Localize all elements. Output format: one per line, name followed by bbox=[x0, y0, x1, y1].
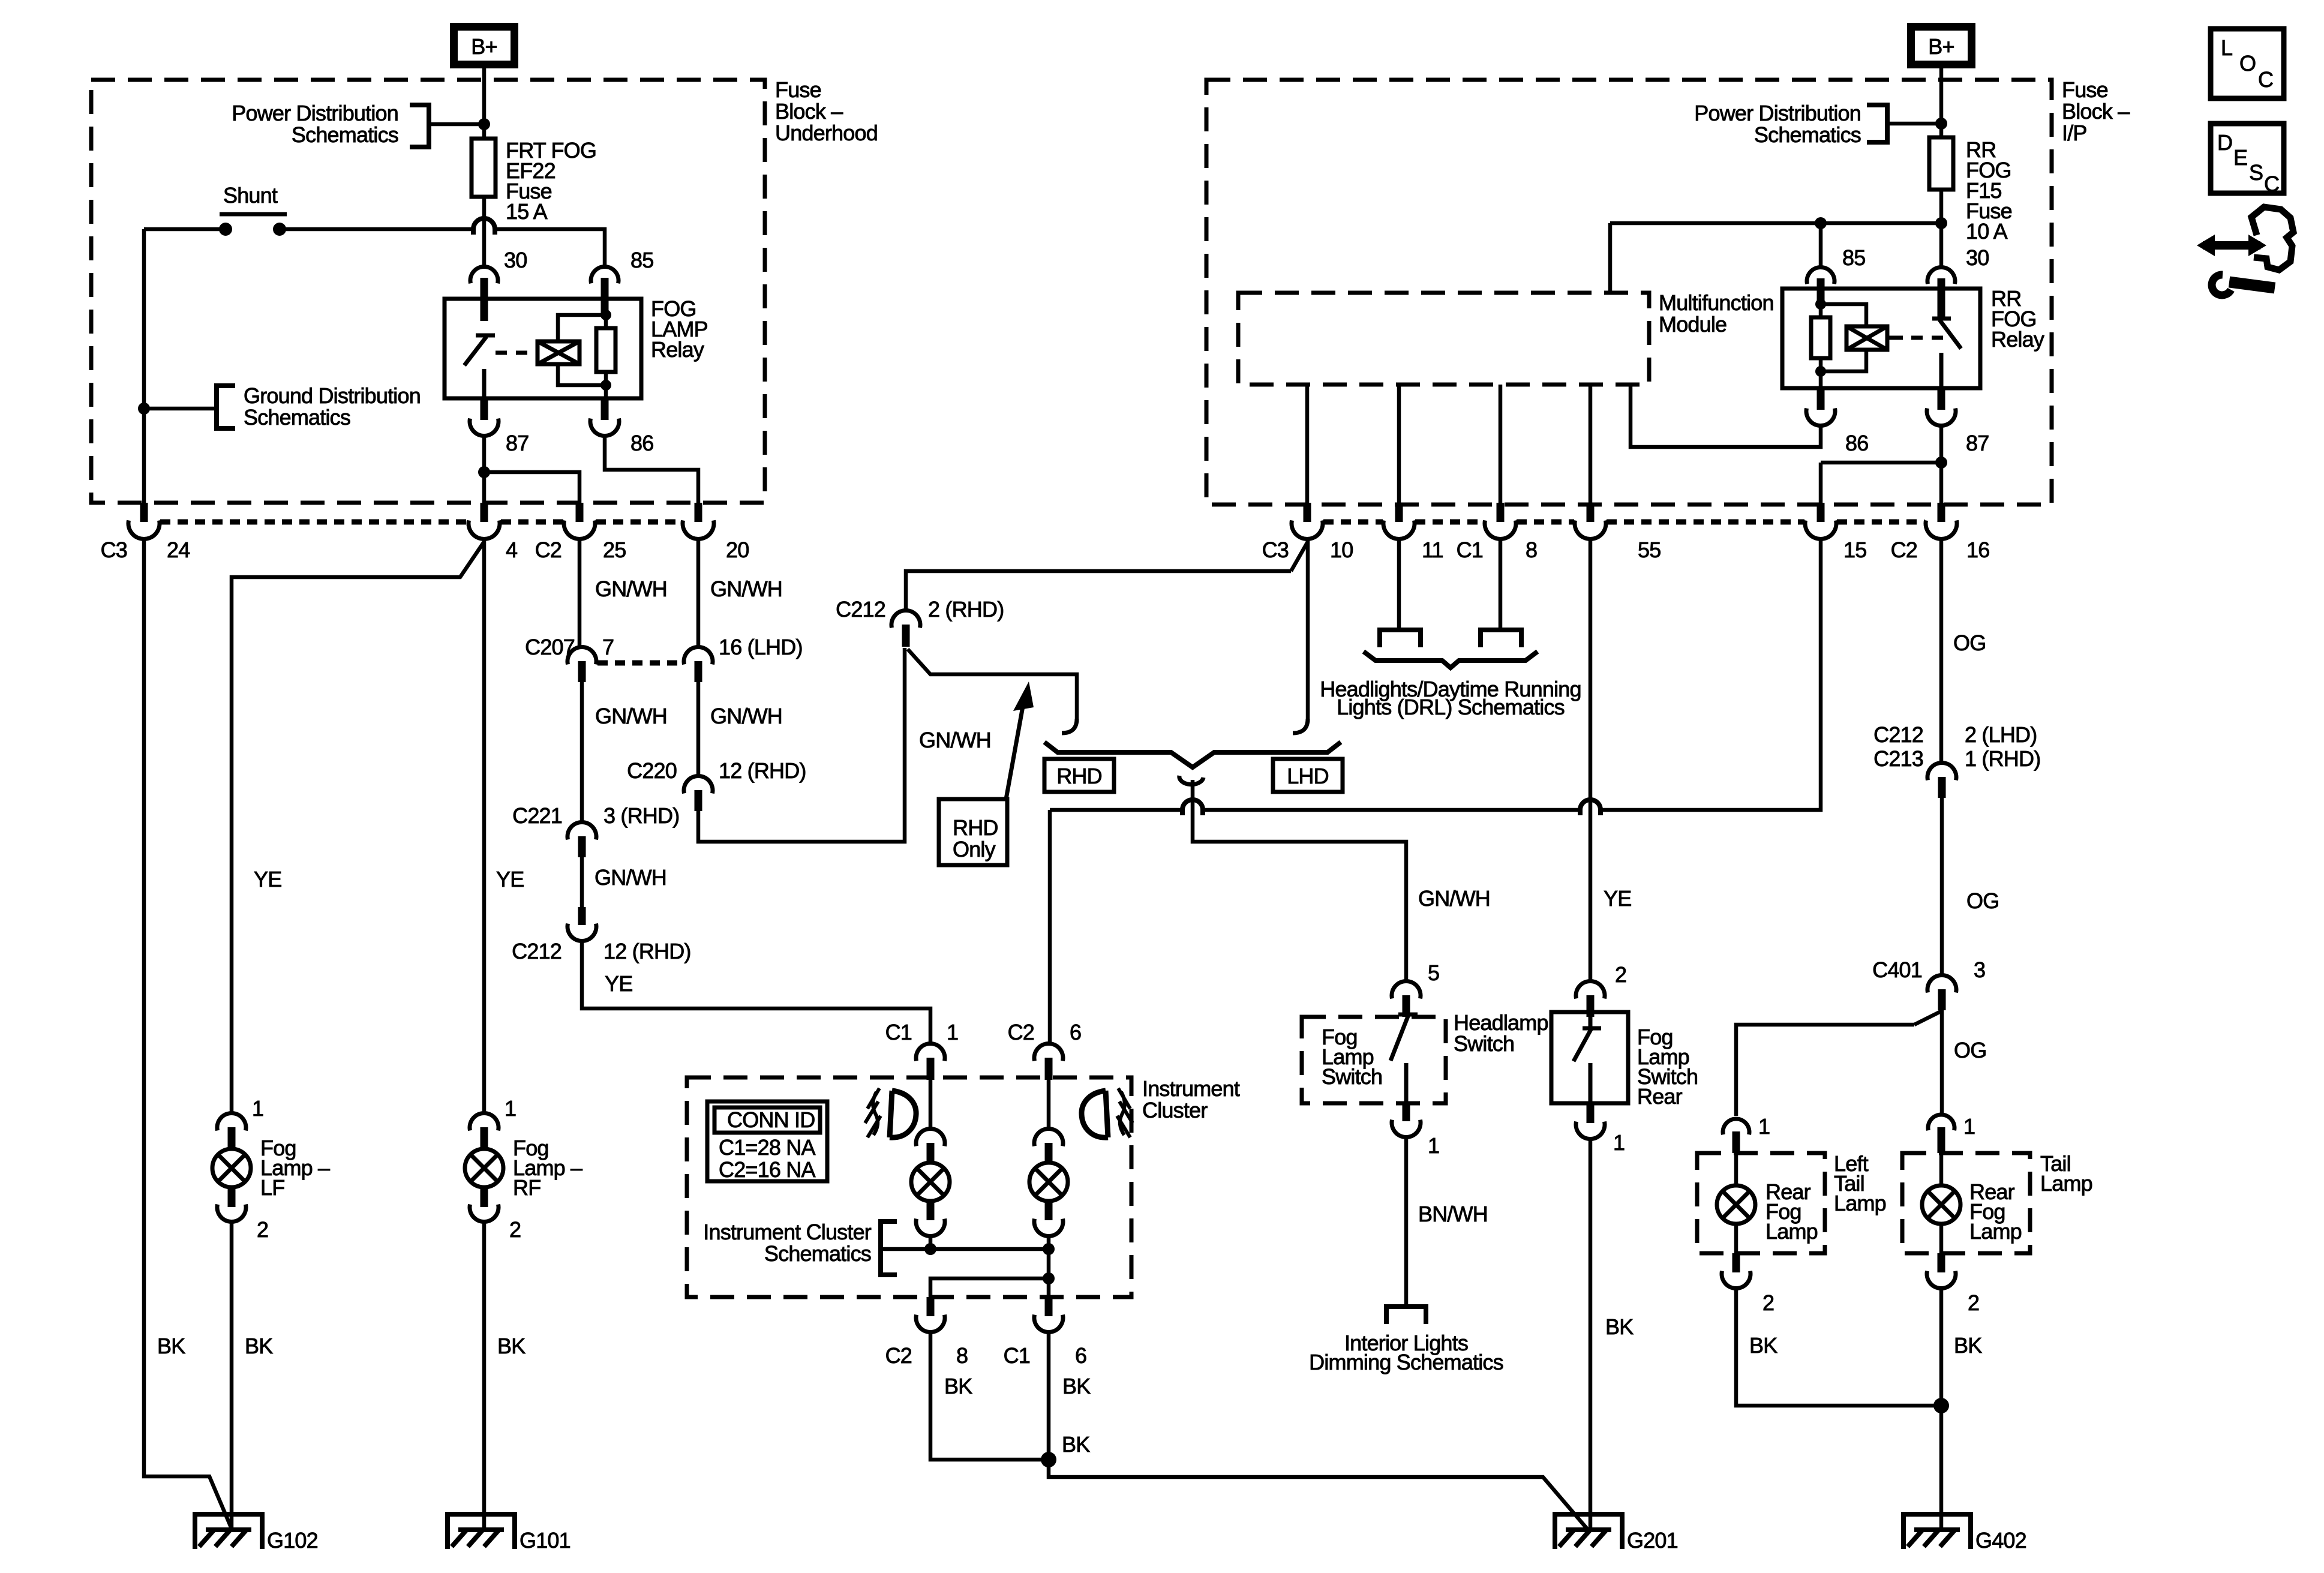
tail lamp dashed box bbox=[1902, 1153, 2030, 1253]
relay pin 85 terminal right bbox=[1807, 268, 1834, 284]
svg-text:8: 8 bbox=[956, 1343, 968, 1368]
box RHD bbox=[1044, 759, 1114, 792]
wire BK left rear fog to splice bbox=[1736, 1287, 1941, 1406]
svg-text:I/P: I/P bbox=[2062, 121, 2087, 145]
wire fuse output to module bbox=[1610, 221, 1941, 226]
svg-text:Lamp: Lamp bbox=[2040, 1171, 2092, 1196]
wire terminal 16 OG down bbox=[1939, 538, 1944, 764]
wire C1-6 BK down bbox=[1047, 1331, 1051, 1460]
shunt terminal dot right bbox=[273, 223, 286, 236]
connector C3 pin 24 bbox=[140, 503, 148, 522]
bulb Rear Fog Lamp left bbox=[1717, 1185, 1755, 1224]
wire 25 GN/WH to C207-7 bbox=[578, 538, 582, 649]
wire YE C212-12 to instrument cluster C1-1 bbox=[582, 939, 930, 1045]
wire BK to G201 bbox=[1589, 1137, 1593, 1531]
svg-text:RHD: RHD bbox=[1056, 764, 1102, 788]
relay resistor right bbox=[1811, 317, 1830, 358]
wire C207-16 GN/WH to C220 bbox=[696, 682, 701, 778]
svg-text:G102: G102 bbox=[267, 1528, 318, 1553]
svg-text:85: 85 bbox=[1842, 245, 1865, 270]
svg-text:15: 15 bbox=[1843, 538, 1866, 562]
connector C221 pin 3 RHD bbox=[568, 822, 596, 840]
svg-text:Instrument: Instrument bbox=[1142, 1076, 1240, 1101]
svg-text:BK: BK bbox=[1605, 1314, 1634, 1339]
connector pin 4 bbox=[481, 503, 488, 522]
svg-text:30: 30 bbox=[504, 248, 527, 272]
svg-text:Multifunction: Multifunction bbox=[1659, 290, 1774, 315]
svg-text:YE: YE bbox=[254, 867, 281, 891]
wire C3-10 branch to C212-2 bbox=[906, 571, 1291, 612]
svg-text:Fuse: Fuse bbox=[2062, 77, 2108, 102]
svg-text:BK: BK bbox=[1062, 1374, 1091, 1398]
svg-text:6: 6 bbox=[1075, 1343, 1086, 1368]
svg-text:Schematics: Schematics bbox=[244, 405, 350, 430]
box RHD Only bbox=[939, 799, 1007, 865]
svg-text:24: 24 bbox=[167, 538, 190, 562]
junction coil bottom right bbox=[1815, 366, 1826, 377]
svg-text:GN/WH: GN/WH bbox=[594, 865, 666, 890]
svg-text:BK: BK bbox=[944, 1374, 972, 1398]
relay actuator dashed link right bbox=[1887, 336, 1903, 340]
svg-text:86: 86 bbox=[1845, 431, 1868, 455]
wire B+ to fuse F15 bbox=[1939, 68, 1944, 137]
multifunction module dashed box bbox=[1238, 293, 1649, 385]
bulb fog indicator right bbox=[1029, 1163, 1068, 1201]
svg-text:5: 5 bbox=[1428, 960, 1439, 985]
bracket Instrument Cluster Schematics bbox=[881, 1221, 897, 1275]
shunt wire left segment bbox=[144, 227, 226, 232]
wire 15-line right segment up to terminal 15 bbox=[1601, 538, 1821, 810]
connector pin 11 bbox=[1395, 503, 1403, 522]
svg-text:12 (RHD): 12 (RHD) bbox=[719, 758, 806, 783]
junction BK rear fog splice bbox=[1933, 1398, 1949, 1413]
svg-text:YE: YE bbox=[605, 971, 632, 996]
wire BN/WH to interior lights dimming bbox=[1404, 1136, 1409, 1304]
relay FOG LAMP Relay box bbox=[445, 299, 641, 398]
svg-text:C3: C3 bbox=[1262, 538, 1289, 562]
svg-text:1: 1 bbox=[1428, 1133, 1439, 1158]
junction pin 87 split bbox=[478, 466, 490, 478]
svg-text:16: 16 bbox=[1966, 538, 1989, 562]
wire B+ to fuse EF22 bbox=[482, 68, 487, 139]
terminal cluster lamp left bottom bbox=[916, 1219, 945, 1236]
svg-text:Switch: Switch bbox=[1454, 1031, 1514, 1056]
svg-text:GN/WH: GN/WH bbox=[595, 577, 667, 601]
svg-text:1: 1 bbox=[1758, 1114, 1770, 1139]
connector C220 pin 12 RHD bbox=[684, 776, 713, 794]
svg-text:Block –: Block – bbox=[775, 99, 843, 124]
bracket interior lights dimming bbox=[1386, 1307, 1426, 1324]
left tail lamp dashed box bbox=[1697, 1153, 1825, 1253]
wire LF to G102 bbox=[230, 1220, 234, 1529]
svg-text:B+: B+ bbox=[471, 34, 497, 59]
connector C212 pin 12 RHD bbox=[578, 907, 586, 925]
brace RHD/LHD selector bbox=[1044, 742, 1341, 767]
junction to pin 85 right bbox=[1815, 217, 1827, 229]
wire C2-6 into cluster lamp bbox=[1047, 1080, 1051, 1130]
svg-text:G201: G201 bbox=[1627, 1528, 1678, 1553]
svg-text:OG: OG bbox=[1966, 888, 1999, 913]
svg-text:Cluster: Cluster bbox=[1142, 1098, 1208, 1122]
svg-text:1 (RHD): 1 (RHD) bbox=[1965, 746, 2040, 771]
wire pin 87 down bbox=[482, 434, 487, 503]
svg-text:B+: B+ bbox=[1928, 34, 1954, 59]
svg-text:1: 1 bbox=[252, 1096, 263, 1121]
wire hop over B+ feed bbox=[473, 218, 495, 235]
wire to power distribution bracket bbox=[429, 122, 484, 127]
terminal fog lamp switch rear pin 1 bbox=[1587, 1103, 1595, 1123]
ground G402 bbox=[1903, 1514, 1971, 1549]
svg-text:C207: C207 bbox=[525, 635, 575, 659]
connector pin 15 bbox=[1817, 503, 1825, 522]
bulb Fog Lamp LF bbox=[212, 1149, 251, 1187]
wire pin 86 to module right bbox=[1631, 385, 1821, 447]
junction node B+ feed bbox=[478, 118, 490, 130]
wire pin 87 down right bbox=[1939, 424, 1944, 503]
relay pin 86 terminal right bbox=[1817, 388, 1825, 410]
junction BK splice bbox=[1041, 1452, 1056, 1467]
svg-text:4: 4 bbox=[506, 538, 517, 562]
svg-text:Only: Only bbox=[953, 837, 996, 861]
svg-text:1: 1 bbox=[1963, 1114, 1975, 1139]
relay pin 87 terminal right bbox=[1938, 388, 1945, 410]
svg-text:Schematics: Schematics bbox=[292, 122, 398, 147]
connector stub DRL right bbox=[1481, 630, 1521, 647]
box LHD bbox=[1273, 759, 1343, 792]
icon fog lamp indicator right bbox=[1082, 1091, 1108, 1137]
svg-text:C1: C1 bbox=[1457, 538, 1483, 562]
svg-text:15 A: 15 A bbox=[506, 199, 548, 224]
wire to C2-8 exit bbox=[930, 1278, 1049, 1297]
icon box LOC bbox=[2211, 29, 2284, 98]
svg-text:Schematics: Schematics bbox=[1754, 122, 1861, 147]
svg-text:20: 20 bbox=[726, 538, 749, 562]
relay resistor bbox=[596, 328, 615, 372]
junction coil top right bbox=[1815, 299, 1826, 310]
wire module pin 55 output bbox=[1589, 385, 1593, 503]
svg-text:10 A: 10 A bbox=[1966, 219, 2008, 244]
wire brace output to headlamp switch pin 5 bbox=[1193, 780, 1406, 983]
arrow RHD Only callout bbox=[1006, 703, 1023, 799]
relay pin 30 terminal right bbox=[1927, 268, 1955, 284]
bracket Power Distribution Schematics right bbox=[1867, 105, 1887, 142]
svg-text:BK: BK bbox=[1062, 1432, 1090, 1457]
wire 15-line mid segment bbox=[1203, 808, 1580, 812]
svg-text:S: S bbox=[2249, 160, 2263, 185]
wire C2-8 BK down bbox=[930, 1331, 1049, 1460]
fuse F15 RR FOG 10A bbox=[1929, 137, 1953, 190]
svg-text:1: 1 bbox=[1613, 1130, 1625, 1155]
coil loop top right bbox=[1821, 304, 1866, 326]
svg-text:C: C bbox=[2258, 67, 2273, 92]
svg-text:BK: BK bbox=[245, 1334, 273, 1358]
svg-text:Shunt: Shunt bbox=[223, 183, 278, 208]
wire C3-24 down to G102 bbox=[144, 538, 232, 1529]
wire pin4 branch to fog lamp LF bbox=[232, 542, 484, 1115]
bulb fog indicator left bbox=[911, 1163, 950, 1201]
connector C207 pin 7 bbox=[568, 647, 596, 665]
icon box DESC bbox=[2211, 124, 2284, 193]
svg-text:BK: BK bbox=[157, 1334, 185, 1358]
svg-text:Relay: Relay bbox=[1991, 327, 2044, 352]
svg-text:2: 2 bbox=[1968, 1290, 1979, 1315]
terminal cluster lamp right bottom bbox=[1034, 1219, 1063, 1236]
connector pin 55 bbox=[1587, 503, 1595, 522]
icon fog lamp indicator left bbox=[890, 1091, 916, 1137]
wire module C3-10 output bbox=[1305, 385, 1310, 503]
wire branch to rear fog lamp left bbox=[1736, 1025, 1914, 1116]
svg-text:YE: YE bbox=[1604, 886, 1631, 911]
bracket Ground Distribution Schematics bbox=[217, 386, 235, 428]
svg-text:3: 3 bbox=[1974, 957, 1985, 982]
svg-text:GN/WH: GN/WH bbox=[919, 728, 991, 752]
wire shunt-left down to C3-24 bbox=[142, 229, 146, 503]
connector C2 pin 16 bbox=[1938, 503, 1945, 522]
connector C1 pin 8 bbox=[1497, 503, 1505, 522]
junction lamp right return bbox=[1043, 1243, 1055, 1255]
svg-text:GN/WH: GN/WH bbox=[1418, 886, 1490, 911]
bracket Power Distribution Schematics bbox=[410, 105, 429, 147]
connector C401 pin 3 bbox=[1927, 975, 1956, 993]
wire pin 55 YE down to fog lamp switch rear bbox=[1589, 539, 1593, 983]
junction coil top bbox=[600, 310, 611, 320]
svg-text:12 (RHD): 12 (RHD) bbox=[603, 939, 691, 963]
wire branch to terminal 15 bbox=[1821, 461, 1941, 465]
svg-text:Instrument Cluster: Instrument Cluster bbox=[703, 1220, 872, 1244]
svg-text:C3: C3 bbox=[101, 538, 127, 562]
relay RR FOG Relay box bbox=[1782, 289, 1980, 388]
svg-text:YE: YE bbox=[496, 867, 524, 891]
brace headlights DRL bbox=[1364, 652, 1538, 668]
svg-text:C2: C2 bbox=[535, 538, 562, 562]
wire module C1-8 output bbox=[1499, 385, 1503, 503]
terminal C1 pin 6 bbox=[1045, 1297, 1053, 1316]
svg-text:GN/WH: GN/WH bbox=[710, 704, 782, 728]
battery feed B+ (left) bbox=[454, 27, 515, 65]
svg-text:25: 25 bbox=[603, 538, 626, 562]
svg-text:Relay: Relay bbox=[651, 337, 704, 362]
relay coil right bbox=[1846, 326, 1887, 350]
svg-text:C2: C2 bbox=[1008, 1020, 1034, 1044]
wire C3-10 straight to LHD brace input bbox=[1306, 539, 1310, 722]
junction lamp left return bbox=[924, 1243, 936, 1255]
branch C401 to left rear fog lamp bbox=[1914, 1011, 1941, 1025]
terminal cluster lamp left top bbox=[916, 1129, 945, 1146]
svg-text:Underhood: Underhood bbox=[775, 121, 878, 145]
branch C3-10 to C212-2 diagonal bbox=[1291, 542, 1308, 571]
svg-text:87: 87 bbox=[1966, 431, 1989, 455]
coil loop top bbox=[558, 315, 606, 341]
svg-text:6: 6 bbox=[1070, 1020, 1081, 1044]
svg-text:BK: BK bbox=[1954, 1333, 1982, 1358]
svg-text:C2: C2 bbox=[885, 1343, 912, 1368]
svg-text:G402: G402 bbox=[1975, 1528, 2026, 1553]
fog lamp switch rear box bbox=[1551, 1012, 1628, 1103]
svg-text:C401: C401 bbox=[1872, 957, 1922, 982]
wire fuse to relay pin 30 right bbox=[1939, 190, 1944, 268]
instrument cluster dashed box bbox=[687, 1077, 1131, 1297]
svg-text:C221: C221 bbox=[512, 803, 562, 828]
wire to ground distribution bracket bbox=[144, 407, 217, 411]
battery feed B+ (right) bbox=[1911, 27, 1972, 65]
svg-text:RHD: RHD bbox=[953, 815, 998, 840]
shunt terminal dot left bbox=[219, 223, 232, 236]
svg-text:Dimming Schematics: Dimming Schematics bbox=[1309, 1350, 1503, 1374]
junction B+ feed right bbox=[1935, 118, 1947, 130]
svg-text:C: C bbox=[2264, 172, 2279, 196]
svg-text:11: 11 bbox=[1422, 538, 1443, 562]
svg-text:BK: BK bbox=[497, 1334, 526, 1358]
relay pin 87 terminal bbox=[481, 398, 488, 420]
wire OG to rear fog lamp right bbox=[1940, 1010, 1944, 1115]
svg-text:RF: RF bbox=[513, 1175, 541, 1200]
wire 15-line down to instrument cluster C2-6 bbox=[1048, 810, 1052, 1045]
wire OG to C401 bbox=[1940, 798, 1944, 977]
icon vehicle with arrow and wrench bbox=[2203, 241, 2260, 250]
relay pin 86 terminal bbox=[601, 398, 609, 420]
wire bracket to lamp return bbox=[882, 1247, 930, 1251]
svg-text:E: E bbox=[2233, 145, 2247, 170]
svg-text:O: O bbox=[2239, 51, 2256, 76]
wire pin 11 to DRL bbox=[1397, 539, 1401, 629]
wire C220 up to C212-2 stub bbox=[698, 648, 905, 842]
connector pin 20 bbox=[695, 503, 702, 522]
hop YE over 15-line bbox=[1580, 800, 1601, 815]
relay coil bbox=[538, 341, 580, 364]
svg-text:3 (RHD): 3 (RHD) bbox=[603, 803, 679, 828]
wire fuse to hop bbox=[482, 197, 487, 218]
svg-text:GN/WH: GN/WH bbox=[595, 704, 667, 728]
svg-text:2 (RHD): 2 (RHD) bbox=[928, 597, 1004, 622]
ground G102 bbox=[195, 1514, 262, 1549]
wire to power distribution bracket right bbox=[1887, 122, 1941, 126]
relay actuator dashed link bbox=[496, 351, 538, 355]
svg-text:CONN ID: CONN ID bbox=[727, 1107, 815, 1132]
svg-text:C213: C213 bbox=[1873, 746, 1923, 771]
svg-text:LHD: LHD bbox=[1287, 764, 1329, 788]
ground G201 bbox=[1555, 1514, 1622, 1549]
connector C3 pin 10 bbox=[1304, 503, 1311, 522]
wire C1-1 into cluster lamp bbox=[929, 1080, 933, 1130]
wire 15-line left of hop bbox=[1050, 808, 1182, 812]
svg-text:Power Distribution: Power Distribution bbox=[1694, 101, 1861, 125]
terminal headlamp switch pin 1 bbox=[1403, 1101, 1410, 1121]
wire RF to G101 bbox=[482, 1220, 487, 1529]
connector C212/C213 bbox=[1927, 763, 1956, 781]
terminal cluster lamp right top bbox=[1034, 1129, 1063, 1146]
junction to C1-6 bbox=[1043, 1272, 1055, 1284]
svg-text:C220: C220 bbox=[627, 758, 677, 783]
svg-text:BN/WH: BN/WH bbox=[1418, 1202, 1488, 1226]
svg-text:8: 8 bbox=[1526, 538, 1537, 562]
svg-text:Switch: Switch bbox=[1322, 1064, 1382, 1089]
CONN ID table bbox=[707, 1101, 827, 1181]
svg-text:Lights (DRL) Schematics: Lights (DRL) Schematics bbox=[1337, 695, 1565, 719]
junction coil bottom bbox=[600, 380, 611, 391]
svg-text:Fuse: Fuse bbox=[775, 77, 821, 102]
relay switch contact bbox=[464, 335, 495, 398]
switch contact headlamp bbox=[1391, 1014, 1418, 1101]
svg-text:Schematics: Schematics bbox=[764, 1241, 871, 1266]
svg-text:1: 1 bbox=[505, 1096, 516, 1121]
ground G101 bbox=[448, 1514, 515, 1549]
wire BK right rear fog to G402 bbox=[1939, 1287, 1944, 1529]
wire BK splice to G201 bbox=[1049, 1460, 1589, 1530]
svg-text:86: 86 bbox=[630, 431, 653, 455]
headlamp switch dashed box bbox=[1302, 1017, 1446, 1103]
svg-text:LF: LF bbox=[260, 1175, 284, 1200]
hook RHD brace input bbox=[1062, 719, 1077, 733]
fuse EF22 FRT FOG 15A bbox=[472, 139, 496, 197]
wire 20 GN/WH to C207-16 bbox=[696, 538, 701, 649]
svg-text:L: L bbox=[2221, 35, 2232, 60]
connector C2 pin 25 bbox=[576, 503, 584, 522]
svg-text:2: 2 bbox=[1615, 962, 1626, 987]
wire fuse to relay pin 30 bbox=[482, 218, 487, 268]
wire lamp returns joined bbox=[930, 1247, 1049, 1251]
svg-text:Module: Module bbox=[1659, 312, 1727, 337]
wire C212-2 to RHD brace input bbox=[908, 649, 1077, 722]
svg-text:Lamp: Lamp bbox=[1834, 1191, 1886, 1215]
svg-text:2: 2 bbox=[509, 1217, 521, 1242]
connector C207 pin 16 LHD bbox=[684, 647, 713, 665]
connector row C3/C2 dotted line bbox=[160, 520, 682, 525]
wire C221 GN/WH to C212-12 bbox=[580, 857, 584, 910]
svg-text:1: 1 bbox=[947, 1020, 958, 1044]
wire pin 86 to terminal 20 bbox=[605, 434, 698, 503]
coil loop bottom right bbox=[1821, 350, 1866, 371]
wire to C1-6 exit bbox=[1047, 1278, 1051, 1297]
wire C207-7 GN/WH to C221 bbox=[580, 682, 584, 824]
svg-text:55: 55 bbox=[1638, 538, 1661, 562]
svg-text:OG: OG bbox=[1953, 631, 1986, 655]
wire module pin 11 output bbox=[1397, 385, 1401, 503]
terminal fog lamp switch rear pin 2 bbox=[1576, 981, 1605, 999]
svg-text:10: 10 bbox=[1330, 538, 1353, 562]
junction fuse output bbox=[1935, 217, 1947, 229]
connector row 2 dotted line bbox=[1323, 520, 1924, 525]
svg-text:C1=28 NA: C1=28 NA bbox=[719, 1135, 815, 1160]
hook LHD brace input bbox=[1293, 719, 1308, 733]
wire C1-8 to DRL bbox=[1499, 539, 1503, 629]
svg-text:Rear: Rear bbox=[1637, 1084, 1683, 1109]
connector stub DRL left bbox=[1380, 630, 1421, 647]
shunt wire right segment bbox=[280, 227, 473, 232]
svg-text:Lamp: Lamp bbox=[1765, 1219, 1818, 1244]
wire pin4 to fog lamp RF bbox=[482, 538, 487, 1115]
svg-text:C1: C1 bbox=[1004, 1343, 1030, 1368]
svg-text:C212: C212 bbox=[512, 939, 562, 963]
svg-text:16 (LHD): 16 (LHD) bbox=[719, 635, 803, 659]
svg-text:Ground Distribution: Ground Distribution bbox=[244, 383, 421, 408]
svg-text:Block –: Block – bbox=[2062, 99, 2130, 124]
junction pin 87 split right bbox=[1935, 457, 1947, 469]
fuse block underhood dashed box bbox=[91, 80, 765, 503]
svg-text:Power Distribution: Power Distribution bbox=[232, 101, 398, 125]
svg-text:85: 85 bbox=[630, 248, 653, 272]
svg-text:G101: G101 bbox=[520, 1528, 571, 1553]
terminal headlamp switch pin 5 bbox=[1392, 981, 1421, 999]
svg-text:C212: C212 bbox=[1873, 722, 1923, 747]
wire pin 87 to terminal 25 bbox=[484, 472, 580, 503]
svg-text:C212: C212 bbox=[836, 597, 885, 622]
svg-text:87: 87 bbox=[506, 431, 529, 455]
svg-text:C1: C1 bbox=[885, 1020, 912, 1044]
wire shunt to relay pin 85 bbox=[495, 229, 605, 268]
terminal C2 pin 8 bbox=[927, 1297, 935, 1316]
svg-text:BK: BK bbox=[1749, 1333, 1777, 1358]
svg-text:2: 2 bbox=[257, 1217, 268, 1242]
